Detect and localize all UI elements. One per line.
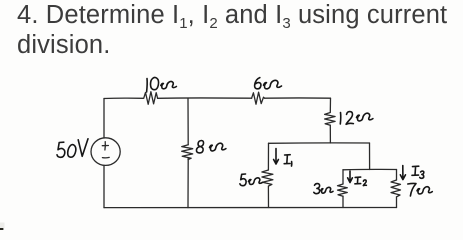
wire tier2 rail xyxy=(343,168,397,170)
label 10ohm xyxy=(147,77,177,92)
resistor R 12ohm zigzag xyxy=(325,113,336,126)
wire tier2 drop xyxy=(369,143,371,170)
resistor R 8ohm zigzag xyxy=(182,145,193,160)
wire top rail right xyxy=(265,97,331,99)
wire 3ohm to bottom xyxy=(342,196,344,207)
label 50V xyxy=(57,139,88,158)
wire top rail left xyxy=(104,97,143,99)
label 12ohm xyxy=(340,112,373,125)
resistor R 6ohm zigzag xyxy=(252,92,265,104)
label 7ohm xyxy=(408,183,433,196)
label 5ohm xyxy=(240,174,263,186)
resistor R 7ohm zigzag xyxy=(391,180,401,197)
arrow I3 xyxy=(400,166,405,180)
wire bottom rail xyxy=(104,207,397,209)
wire 7ohm branch upper xyxy=(396,170,398,181)
wire 12ohm to middle rail xyxy=(329,125,331,143)
wire 3ohm branch upper xyxy=(342,170,344,184)
minus sign xyxy=(102,156,109,158)
label I1 xyxy=(284,155,292,166)
corner watermark xyxy=(0,228,3,230)
wire 5ohm branch upper xyxy=(267,143,269,170)
wire right drop to 12ohm xyxy=(329,98,331,112)
voltage source V1 circle xyxy=(91,138,120,166)
wire middle rail xyxy=(269,142,370,144)
arrow I2 xyxy=(348,171,353,183)
label 3ohm xyxy=(314,184,333,194)
label I2 xyxy=(355,177,367,186)
wire 8ohm branch upper xyxy=(187,98,189,145)
wire top rail middle xyxy=(158,97,252,99)
title text xyxy=(17,2,457,58)
label 6ohm xyxy=(255,78,282,89)
wire left rail top xyxy=(103,99,105,138)
label 8ohm xyxy=(196,140,225,152)
wire left rail bottom xyxy=(103,166,105,208)
arrow I1 xyxy=(274,149,279,165)
resistor R 3ohm zigzag xyxy=(338,184,348,196)
wire 5ohm to bottom xyxy=(267,186,269,207)
resistor R 10ohm zigzag xyxy=(144,92,158,105)
plus sign xyxy=(104,142,106,150)
resistor R 5ohm zigzag xyxy=(262,170,273,186)
wire 8ohm to bottom xyxy=(187,158,189,208)
label I3 xyxy=(412,166,424,178)
wire 7ohm to bottom xyxy=(396,197,398,208)
